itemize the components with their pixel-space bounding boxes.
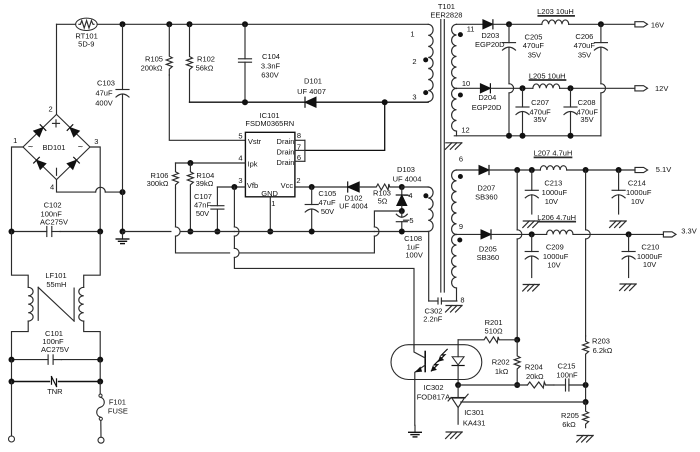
wire aux pin4 xyxy=(402,186,428,188)
svg-text:Drain: Drain xyxy=(277,137,295,146)
svg-text:C206: C206 xyxy=(575,32,593,41)
svg-text:C207: C207 xyxy=(531,98,549,107)
wire L207 to 5.1V terminal xyxy=(567,169,635,171)
junction node sgnd/C208 xyxy=(568,133,574,139)
svg-text:10V: 10V xyxy=(631,197,644,206)
op-amp U1 IC101 FSDM0365RN box xyxy=(238,111,301,208)
svg-text:10: 10 xyxy=(462,79,470,88)
wire R106 lower xyxy=(176,188,230,253)
svg-text:510Ω: 510Ω xyxy=(485,327,504,336)
svg-text:35V: 35V xyxy=(528,50,541,59)
diode D203 xyxy=(475,20,505,49)
svg-text:BD101: BD101 xyxy=(43,143,66,152)
svg-text:470uF: 470uF xyxy=(574,41,596,50)
inductor LF101 common mode choke xyxy=(12,232,101,360)
junction node ground/C107 xyxy=(214,229,220,235)
diode D101 xyxy=(297,77,326,108)
svg-text:1: 1 xyxy=(410,30,414,39)
junction node snubber/C104 xyxy=(242,99,248,105)
wire C102 row xyxy=(12,231,101,233)
ground primary main xyxy=(116,232,129,244)
svg-text:47uF: 47uF xyxy=(95,89,113,98)
capacitor C214 xyxy=(610,170,652,228)
svg-text:C208: C208 xyxy=(578,98,596,107)
svg-text:39kΩ: 39kΩ xyxy=(196,179,214,188)
junction node bulk+/C104 xyxy=(242,21,248,27)
node 16V terminal xyxy=(635,21,664,30)
wire L to input terminal xyxy=(11,382,13,437)
svg-text:2.2nF: 2.2nF xyxy=(423,315,443,324)
svg-text:400V: 400V xyxy=(95,99,113,108)
wire R203 from 5.1V xyxy=(586,170,591,336)
capacitor C208 xyxy=(564,88,598,136)
wire R203 to ref node xyxy=(585,385,587,402)
wire L205 to 12V terminal xyxy=(560,87,635,89)
junction node ground/R104 xyxy=(187,229,193,235)
shunt regulator IC301 KA431 xyxy=(448,385,485,427)
resistor R203 xyxy=(583,336,613,385)
wire 5.1V to R201 node xyxy=(517,170,522,340)
junction node N/C101 xyxy=(97,357,103,363)
junction node AC-N/C102 xyxy=(97,229,103,235)
ground KA431 anode xyxy=(446,432,463,439)
wire D207 to L207 xyxy=(489,169,540,171)
diode LED IC302 xyxy=(452,345,464,385)
svg-text:2: 2 xyxy=(296,176,300,185)
svg-text:C215: C215 xyxy=(558,362,576,371)
resistor R204 xyxy=(525,363,554,388)
junction node minus rail/C103 xyxy=(120,189,126,195)
svg-text:FSDM0365RN: FSDM0365RN xyxy=(245,119,294,128)
junction node primary ground/C103 xyxy=(120,229,126,235)
svg-text:D207: D207 xyxy=(477,183,495,192)
svg-text:1kΩ: 1kΩ xyxy=(495,367,509,376)
resistor R102 xyxy=(187,24,215,102)
svg-text:R204: R204 xyxy=(525,363,543,372)
svg-text:5: 5 xyxy=(409,216,413,225)
capacitor C213 xyxy=(523,170,568,228)
inductor L207 xyxy=(534,149,573,170)
node 5.1V terminal xyxy=(635,165,671,174)
wire bridge pin2 to rail xyxy=(56,24,58,114)
svg-text:Vfb: Vfb xyxy=(247,181,258,190)
junction node 5.1V/R203 xyxy=(583,167,589,173)
transformer T101 secondary winding upper xyxy=(452,24,475,136)
resistor R201 xyxy=(458,318,517,343)
diode D205 xyxy=(477,230,500,262)
node 3.3V terminal xyxy=(663,227,696,238)
svg-text:Ipk: Ipk xyxy=(247,159,257,168)
svg-text:UF 4007: UF 4007 xyxy=(297,87,326,96)
transformer T101 primary winding xyxy=(410,24,433,101)
resistor R205 xyxy=(561,402,589,429)
svg-text:~: ~ xyxy=(78,142,83,152)
svg-text:6.2kΩ: 6.2kΩ xyxy=(593,346,613,355)
svg-text:TNR: TNR xyxy=(47,387,63,396)
svg-text:C104: C104 xyxy=(262,52,280,61)
svg-text:D103: D103 xyxy=(397,165,415,174)
svg-text:R105: R105 xyxy=(145,55,163,64)
svg-text:D203: D203 xyxy=(481,31,499,40)
svg-text:5.1V: 5.1V xyxy=(656,165,671,174)
junction node 12V/C207 xyxy=(520,85,526,91)
resistor R103 xyxy=(359,184,402,206)
ground secondary pin12 xyxy=(445,143,462,150)
svg-text:Drain: Drain xyxy=(277,158,295,167)
wire C103 to primary ground xyxy=(122,192,124,231)
svg-text:~: ~ xyxy=(28,142,33,152)
capacitor C302 xyxy=(423,298,457,324)
wire bulk+ top rail xyxy=(57,23,429,25)
svg-text:C210: C210 xyxy=(641,242,659,251)
svg-text:5D-9: 5D-9 xyxy=(78,39,94,48)
svg-text:Vstr: Vstr xyxy=(248,137,262,146)
capacitor C205 xyxy=(503,24,545,136)
capacitor C108 xyxy=(396,211,423,259)
wire D203 to L203 xyxy=(493,23,542,25)
svg-text:100nF: 100nF xyxy=(556,371,578,380)
wire 5.1V row xyxy=(457,169,480,171)
svg-text:3.3nF: 3.3nF xyxy=(261,62,281,71)
wire primary ground rail xyxy=(123,232,429,302)
inductor L206 xyxy=(537,213,576,234)
svg-text:Drain: Drain xyxy=(277,148,295,157)
svg-text:10V: 10V xyxy=(547,261,560,270)
wire Vfb to opto xyxy=(234,187,414,348)
wire Ipk sense line xyxy=(239,211,402,253)
op-amp U2 optocoupler IC302 body xyxy=(391,345,482,402)
svg-text:3: 3 xyxy=(94,137,98,146)
svg-text:L207 4.7uH: L207 4.7uH xyxy=(534,149,573,158)
junction node ref/R205 xyxy=(583,399,589,405)
wire drain node to T101 pin3 xyxy=(385,101,429,103)
junction node Ipk/R104 xyxy=(187,160,193,166)
svg-text:D204: D204 xyxy=(478,93,496,102)
svg-text:50V: 50V xyxy=(196,209,209,218)
svg-text:200kΩ: 200kΩ xyxy=(141,64,163,73)
wire IC101 drain pins bracket xyxy=(295,140,305,161)
diode D207 xyxy=(475,166,498,202)
capacitor C207 xyxy=(516,88,551,136)
junction node LED cathode xyxy=(455,382,461,388)
svg-text:Vcc: Vcc xyxy=(281,181,294,190)
svg-text:AC275V: AC275V xyxy=(41,345,69,354)
capacitor C104 xyxy=(239,24,281,102)
wire 12V row xyxy=(457,87,481,89)
wire comp line xyxy=(458,384,527,386)
svg-text:D101: D101 xyxy=(304,77,322,86)
junction node sgnd/C205 xyxy=(506,133,512,139)
junction node N/TNR xyxy=(97,379,103,385)
svg-text:630V: 630V xyxy=(261,71,279,80)
transformer T101 secondary winding lower xyxy=(452,155,465,305)
svg-text:SB360: SB360 xyxy=(475,193,498,202)
svg-text:SB360: SB360 xyxy=(477,253,500,262)
wire Vcc line xyxy=(295,186,348,188)
transistor Q1 opto phototransistor xyxy=(414,345,425,426)
svg-text:FUSE: FUSE xyxy=(108,406,128,415)
svg-text:470uF: 470uF xyxy=(523,41,545,50)
node input terminal L xyxy=(9,436,15,442)
wire TNR row xyxy=(12,360,101,382)
svg-text:50V: 50V xyxy=(321,207,334,216)
svg-text:AC275V: AC275V xyxy=(40,218,68,227)
junction node 3.3V/C210 xyxy=(626,231,632,237)
svg-text:12: 12 xyxy=(461,125,469,134)
wire Ipk line xyxy=(176,162,246,164)
junction node ground/pin1 xyxy=(267,229,273,235)
node 12V terminal xyxy=(635,84,668,93)
svg-text:KA431: KA431 xyxy=(463,418,486,427)
wire R201 to LED xyxy=(457,340,459,345)
svg-text:1: 1 xyxy=(13,136,17,145)
capacitor C102 xyxy=(40,200,68,236)
svg-text:6kΩ: 6kΩ xyxy=(562,420,576,429)
junction node bulk+/R102 xyxy=(187,21,193,27)
wire L203 to 16V terminal xyxy=(569,23,635,25)
svg-text:L203 10uH: L203 10uH xyxy=(537,7,574,16)
svg-text:C103: C103 xyxy=(97,79,115,88)
junction node 5.1V/feedback xyxy=(514,167,520,173)
svg-text:L206 4.7uH: L206 4.7uH xyxy=(537,213,576,222)
svg-text:20kΩ: 20kΩ xyxy=(526,372,544,381)
junction node D103 anode xyxy=(399,208,405,214)
svg-text:9: 9 xyxy=(459,222,463,231)
svg-text:1000uF: 1000uF xyxy=(543,252,569,261)
diode D103 xyxy=(393,165,422,211)
diode D102 xyxy=(339,182,368,210)
svg-text:R202: R202 xyxy=(492,357,510,366)
svg-text:1000uF: 1000uF xyxy=(542,188,568,197)
svg-text:EER2828: EER2828 xyxy=(430,11,462,20)
svg-text:12V: 12V xyxy=(655,84,668,93)
svg-text:1000uF: 1000uF xyxy=(626,188,652,197)
svg-text:10V: 10V xyxy=(545,197,558,206)
light arrows opto xyxy=(431,349,447,371)
svg-text:3: 3 xyxy=(238,176,242,185)
svg-text:C214: C214 xyxy=(628,179,646,188)
svg-text:UF 4004: UF 4004 xyxy=(339,201,368,210)
junction node Vfb xyxy=(231,184,237,190)
svg-text:35V: 35V xyxy=(533,115,546,124)
capacitor C107 xyxy=(194,187,224,232)
svg-text:3.3V: 3.3V xyxy=(681,227,696,236)
resistor R106 xyxy=(147,163,179,188)
resistor R202 xyxy=(492,340,520,385)
transformer T101 core xyxy=(441,20,445,292)
wire bridge pin3 to AC line xyxy=(90,147,100,232)
capacitor C215 xyxy=(554,362,586,391)
ground secondary pin8 xyxy=(446,306,463,313)
junction node ground/C108 xyxy=(399,229,405,235)
wire IC101 GND pin1 xyxy=(269,197,271,232)
svg-text:8: 8 xyxy=(460,296,464,305)
svg-text:UF 4004: UF 4004 xyxy=(393,175,422,184)
svg-text:C213: C213 xyxy=(544,179,562,188)
svg-text:16V: 16V xyxy=(651,21,664,30)
svg-text:C102: C102 xyxy=(44,200,62,209)
svg-text:8: 8 xyxy=(297,131,301,140)
wire D205 to L206 xyxy=(491,233,547,235)
capacitor C103 xyxy=(95,24,129,192)
junction node 5.1V/C214 xyxy=(616,167,622,173)
junction node 16V/C205 xyxy=(506,21,512,27)
diode D204 xyxy=(472,84,502,112)
svg-text:5Ω: 5Ω xyxy=(378,197,388,206)
capacitor C101 xyxy=(41,329,69,364)
svg-text:4: 4 xyxy=(50,182,54,191)
inductor L205 xyxy=(529,72,566,89)
capacitor C209 xyxy=(523,234,569,291)
junction node aux pin4 xyxy=(399,184,405,190)
junction node 12V/C208 xyxy=(568,85,574,91)
junction node 5.1V/C213 xyxy=(529,167,535,173)
svg-text:D205: D205 xyxy=(479,245,497,254)
wire Vfb line xyxy=(217,186,245,188)
inductor L203 xyxy=(537,7,574,24)
svg-text:300kΩ: 300kΩ xyxy=(147,179,169,188)
junction node L/C101 xyxy=(9,357,15,363)
varistor TNR xyxy=(47,377,63,397)
svg-text:IC302: IC302 xyxy=(423,383,443,392)
svg-text:6: 6 xyxy=(459,155,463,164)
bridge rectifier BD101 xyxy=(13,105,98,192)
wire secondary ground row xyxy=(454,135,601,137)
svg-text:EGP20D: EGP20D xyxy=(475,40,505,49)
wire D204 to L205 xyxy=(490,87,533,89)
junction node comp/R203 xyxy=(583,382,589,388)
svg-text:R102: R102 xyxy=(197,55,215,64)
junction node ground/C105 xyxy=(309,229,315,235)
svg-text:EGP20D: EGP20D xyxy=(472,103,502,112)
wire 16V row xyxy=(457,23,483,25)
svg-text:C105: C105 xyxy=(318,189,336,198)
junction node bulk+/R105 xyxy=(166,21,172,27)
junction node R202/comp line xyxy=(514,382,520,388)
svg-text:47uF: 47uF xyxy=(318,198,336,207)
svg-text:5: 5 xyxy=(238,131,242,140)
svg-text:LF101: LF101 xyxy=(45,271,66,280)
svg-text:1: 1 xyxy=(271,199,275,208)
wire drain vertical xyxy=(305,102,385,150)
capacitor C206 xyxy=(574,24,608,136)
svg-text:C209: C209 xyxy=(546,242,564,251)
wire KA431 ref line xyxy=(461,401,586,403)
svg-text:35V: 35V xyxy=(578,50,591,59)
svg-text:R203: R203 xyxy=(592,337,610,346)
resistor R104 xyxy=(187,163,214,232)
junction node 16V/C206 xyxy=(598,21,604,27)
svg-text:R205: R205 xyxy=(561,411,579,420)
transformer T101 labels xyxy=(430,2,462,20)
wire R105 to Vstr xyxy=(169,75,245,140)
svg-text:3: 3 xyxy=(412,93,416,102)
junction node R201/R202 xyxy=(514,337,520,343)
resistor R105 xyxy=(141,24,173,75)
svg-text:56kΩ: 56kΩ xyxy=(196,64,214,73)
ground R205 xyxy=(577,436,594,443)
fuse F101 xyxy=(97,382,128,438)
thermistor RT101 xyxy=(75,18,97,48)
junction node 3.3V/C209 xyxy=(529,231,535,237)
junction node sgnd/C207 xyxy=(520,133,526,139)
svg-text:4: 4 xyxy=(238,154,242,163)
wire C101 row xyxy=(12,359,101,361)
wire D101 anode to drain node xyxy=(316,101,385,103)
capacitor C210 xyxy=(620,234,663,290)
wire bridge pin4 minus rail xyxy=(57,180,123,193)
transformer T101 aux winding xyxy=(404,187,434,231)
ground opto emitter xyxy=(409,425,422,437)
svg-text:2: 2 xyxy=(412,57,416,66)
junction node bulk+/C103 xyxy=(120,21,126,27)
svg-text:35V: 35V xyxy=(580,115,593,124)
junction node Vcc/C105 xyxy=(309,184,315,190)
junction node AC-L/C102 xyxy=(9,229,15,235)
junction node L/TNR xyxy=(9,379,15,385)
wire 3.3V row xyxy=(457,233,482,235)
svg-text:100V: 100V xyxy=(405,250,423,259)
wire L206 to 3.3V terminal xyxy=(573,233,663,235)
junction node drain xyxy=(382,99,388,105)
capacitor C105 xyxy=(305,187,336,232)
svg-text:FOD817A: FOD817A xyxy=(417,393,450,402)
svg-text:2: 2 xyxy=(49,105,53,114)
node input terminal N xyxy=(98,437,104,443)
wire snubber line xyxy=(190,101,306,103)
wire bridge pin1 to AC line xyxy=(12,147,24,232)
svg-text:11: 11 xyxy=(467,25,475,34)
svg-text:F101: F101 xyxy=(109,397,126,406)
svg-text:55mH: 55mH xyxy=(46,280,66,289)
svg-text:IC301: IC301 xyxy=(464,408,484,417)
svg-text:10V: 10V xyxy=(643,260,656,269)
